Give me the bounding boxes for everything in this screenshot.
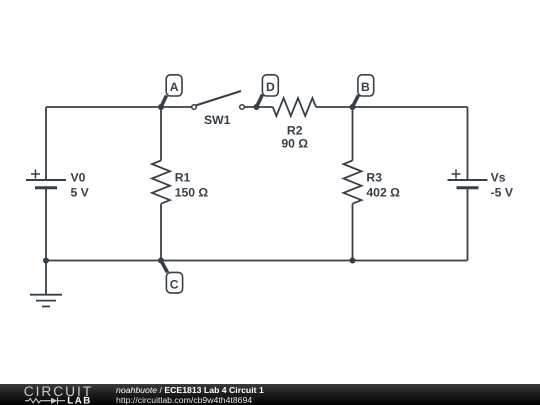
wire node A down to R1	[160, 107, 162, 161]
label V0 value	[71, 170, 90, 199]
node D flag	[262, 75, 278, 96]
svg-text:LAB: LAB	[67, 396, 92, 405]
node A flag	[166, 75, 182, 96]
junction bottom-left	[43, 258, 49, 264]
wire R1 to node C	[160, 204, 162, 261]
junction R3 bottom	[350, 258, 356, 264]
label R2 value	[281, 123, 308, 150]
svg-text:-5 V: -5 V	[491, 185, 514, 199]
wire right rail bottom (Vs to bottom wire)	[467, 188, 469, 261]
footer text	[116, 385, 264, 405]
junction node D	[254, 104, 260, 110]
svg-text:C: C	[170, 278, 179, 292]
voltage source Vs	[448, 170, 488, 188]
voltage source V0	[26, 170, 66, 188]
junction node C	[158, 258, 164, 264]
resistor R3	[344, 161, 362, 204]
node B leader	[353, 95, 359, 107]
wire left rail bottom (V0 to bottom wire)	[45, 188, 47, 261]
switch SW1 right terminal	[240, 105, 245, 110]
wire bottom rail	[46, 260, 468, 262]
svg-text:Vs: Vs	[491, 170, 506, 184]
svg-text:90 Ω: 90 Ω	[281, 137, 308, 151]
svg-text:R3: R3	[366, 170, 382, 184]
svg-text:402 Ω: 402 Ω	[366, 185, 400, 199]
wire R2 to node B to top-right corner	[316, 106, 468, 108]
junction node A	[158, 104, 164, 110]
svg-text:V0: V0	[71, 170, 86, 184]
footer bar	[0, 384, 540, 405]
node C leader	[161, 261, 168, 273]
wire R3 to bottom rail	[352, 204, 354, 261]
wire switch right terminal to R2	[244, 106, 273, 108]
node D leader	[257, 95, 263, 108]
switch SW1 left terminal	[192, 105, 197, 110]
wire node B down to R3	[352, 107, 354, 161]
wire right rail top (to Vs)	[467, 107, 469, 180]
junction node B	[350, 104, 356, 110]
resistor R2	[273, 98, 316, 116]
svg-text:R1: R1	[175, 170, 191, 184]
switch SW1 lever	[196, 91, 242, 106]
wire left rail top (to V0)	[45, 107, 47, 180]
label R3 value	[366, 170, 400, 199]
resistor R1	[152, 161, 170, 204]
label Vs value	[491, 170, 514, 199]
wire top-left segment (V0+ to node A to switch)	[46, 106, 192, 108]
svg-text:5 V: 5 V	[71, 185, 90, 199]
svg-text:150 Ω: 150 Ω	[175, 185, 209, 199]
circuitlab logo	[0, 384, 100, 405]
svg-text:D: D	[266, 80, 275, 94]
svg-text:SW1: SW1	[204, 113, 231, 127]
label R1 value	[175, 170, 209, 199]
node A leader	[161, 96, 167, 108]
node C flag	[166, 272, 182, 293]
ground	[30, 261, 62, 307]
svg-text:A: A	[170, 80, 179, 94]
node B flag	[358, 75, 374, 96]
svg-text:R2: R2	[287, 123, 303, 137]
svg-text:B: B	[361, 80, 370, 94]
